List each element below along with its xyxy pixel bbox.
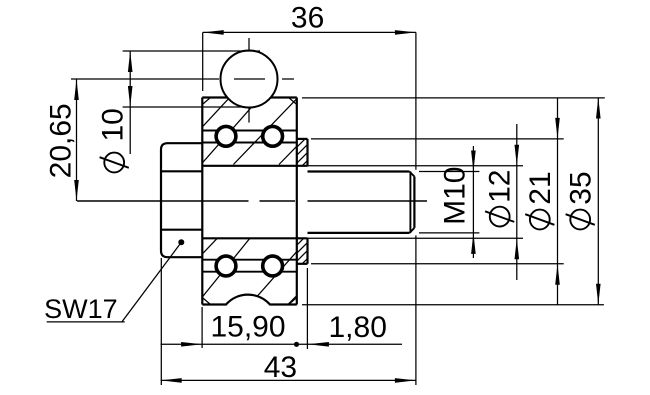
dim 36 text	[291, 2, 324, 35]
dim 43 line	[161, 379, 416, 381]
dim dia35 arrows	[596, 98, 601, 305]
svg-text:35: 35	[564, 171, 597, 204]
dim 43 arrows	[161, 378, 416, 383]
dim 1,80 arrow	[308, 342, 329, 347]
dim dia21 arrows	[555, 118, 560, 285]
dim dia10 arrows	[128, 51, 133, 107]
dim 43 extension left	[160, 258, 162, 385]
dim 36 extension left	[202, 32, 204, 91]
main horizontal centerline (axis)	[77, 200, 427, 202]
dim dia10 extension bottom	[123, 106, 245, 108]
bearing race lines upper	[202, 131, 296, 143]
thread bottom edge	[308, 232, 410, 234]
guide roller circle (dia 10)	[221, 51, 278, 108]
roller corner chamfer top-left	[202, 98, 210, 105]
svg-text:10: 10	[97, 108, 130, 141]
hex head outline	[161, 143, 202, 257]
label SW17 leader dot	[178, 239, 184, 245]
dim dia12 arrows	[515, 145, 520, 259]
roller corner chamfer top-right	[289, 98, 297, 105]
shank top edge / dia12 upper extension	[202, 165, 523, 167]
dim M10 line	[472, 146, 474, 258]
dim dia21 extension top	[311, 138, 564, 140]
bearing ball top-left	[216, 126, 236, 146]
dim dia21 extension bottom	[311, 263, 564, 265]
dim 20,65 line	[76, 79, 78, 201]
groove cut-out (white)	[219, 295, 278, 354]
label SW17 text	[44, 294, 118, 324]
label SW17 leader line	[47, 242, 182, 322]
washer top edge	[297, 138, 308, 140]
dim 1,80 extension right	[306, 268, 308, 349]
svg-text:43: 43	[264, 351, 297, 384]
hex head facet line upper	[161, 170, 202, 172]
svg-text:36: 36	[291, 2, 324, 35]
section hatching washer lower	[295, 233, 310, 272]
dim dia35 extension top	[302, 97, 605, 99]
dim dia35 line	[597, 98, 599, 305]
dim 36 line	[203, 31, 416, 33]
washer bottom edge	[297, 263, 308, 265]
dim shared point dot	[294, 342, 299, 347]
svg-text:1,80: 1,80	[329, 311, 387, 344]
dim 36 arrows	[203, 30, 416, 35]
thread chamfer bottom	[409, 228, 414, 233]
bearing ball bottom-right	[263, 256, 283, 276]
thread top edge	[308, 170, 410, 172]
svg-text:20,65: 20,65	[44, 103, 77, 178]
dim 15,90 arrow	[181, 342, 202, 347]
dim 43 text	[264, 351, 297, 384]
dim 1,80 line	[297, 343, 403, 345]
dim dia12 text	[483, 170, 516, 227]
dim dia21 line	[557, 98, 559, 305]
dim 15,90 line	[161, 343, 297, 345]
bearing ball top-right	[263, 126, 283, 146]
bearing ball bottom-left	[216, 256, 236, 276]
bearing race lines lower	[202, 260, 296, 272]
section hatching washer upper	[295, 135, 310, 174]
dim M10 extension top	[419, 171, 479, 173]
shank bottom edge / dia12 lower extension	[202, 237, 523, 239]
thread chamfer top	[409, 172, 414, 177]
dim M10 text	[438, 167, 471, 225]
dim 20,65 text	[44, 103, 77, 178]
thread end chamfer edge	[409, 172, 411, 233]
section hatching upper roller band	[202, 98, 296, 165]
roller top edge	[202, 96, 296, 98]
svg-text:21: 21	[524, 171, 557, 204]
roller left face	[201, 98, 203, 305]
guide-roller vertical centerline	[248, 38, 250, 123]
dim dia35 text	[564, 171, 597, 229]
dim M10 arrows	[471, 151, 476, 254]
dim dia12 line	[516, 124, 518, 280]
dim 15,90 text	[210, 311, 285, 344]
dim 36/43 extension right	[415, 32, 417, 385]
svg-text:SW17: SW17	[44, 294, 118, 324]
svg-text:M10: M10	[438, 167, 471, 225]
guide circle horizontal centerline segments	[71, 78, 294, 80]
roller bottom edge with groove arc	[202, 295, 296, 305]
dim M10 extension bottom	[419, 232, 479, 234]
section hatching lower roller band	[202, 238, 296, 305]
dim 1,80 text	[329, 311, 387, 344]
dim dia35 extension bottom	[302, 304, 604, 306]
dim 20,65 arrows	[74, 79, 79, 201]
svg-text:12: 12	[483, 170, 516, 203]
thread end face	[413, 177, 415, 228]
dim dia21 text	[524, 171, 557, 229]
washer right face	[306, 139, 308, 264]
roller right face	[296, 98, 298, 305]
hex head facet line lower	[161, 229, 202, 231]
roller corner chamfer bottom-left	[202, 298, 210, 305]
dim dia10 text	[97, 108, 130, 172]
svg-text:15,90: 15,90	[210, 311, 285, 344]
dim dia10 line	[129, 51, 131, 154]
dim dia10 extension top	[123, 50, 260, 52]
dim 15,90 extension left	[201, 307, 203, 348]
roller corner chamfer bottom-right	[289, 298, 297, 305]
